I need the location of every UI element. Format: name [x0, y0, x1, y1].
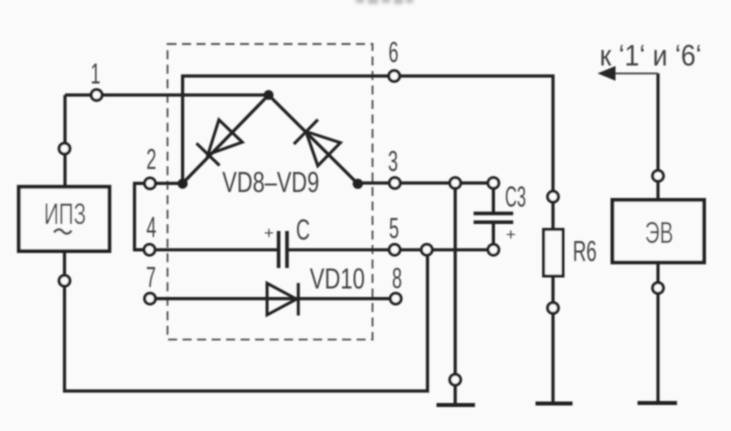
svg-text:3: 3	[388, 146, 398, 178]
svg-text:4: 4	[146, 212, 156, 244]
svg-text:VD8–VD9: VD8–VD9	[222, 167, 319, 199]
svg-text:8: 8	[392, 263, 402, 295]
svg-text:6: 6	[389, 37, 399, 69]
svg-text:+: +	[264, 224, 274, 243]
svg-text:к ‘1‘ и ‘6‘: к ‘1‘ и ‘6‘	[600, 40, 702, 73]
svg-text:C3: C3	[505, 182, 526, 214]
svg-text:VD10: VD10	[310, 264, 365, 296]
svg-text:5: 5	[389, 213, 399, 245]
svg-text:R6: R6	[573, 236, 597, 268]
svg-text:ЭВ: ЭВ	[645, 215, 674, 250]
svg-text:C: C	[296, 215, 310, 247]
svg-text:ИПЗ: ИПЗ	[44, 198, 86, 231]
svg-text:+: +	[506, 225, 516, 244]
svg-text:7: 7	[146, 262, 156, 294]
svg-text:2: 2	[146, 144, 156, 176]
svg-text:1: 1	[91, 59, 101, 91]
